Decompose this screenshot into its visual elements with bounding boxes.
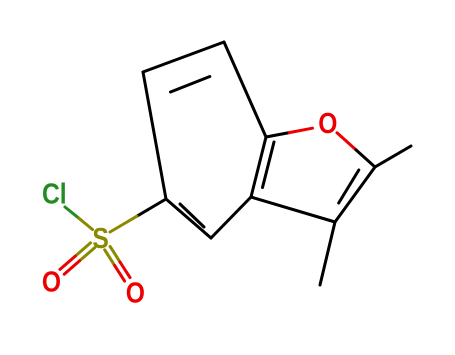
inner line of double bond C6=C7: [171, 77, 210, 93]
bond C7a-O1 black half: [266, 133, 289, 137]
svg-text:O: O: [318, 107, 337, 139]
fusion bond C3a-C7a: [251, 137, 266, 197]
bond C7a-O1 red half: [289, 128, 312, 132]
bond C5-S olive half: [110, 216, 137, 232]
methyl bond C3-CH3: [320, 222, 335, 285]
svg-text:Cl: Cl: [42, 178, 67, 210]
bond S-Cl green half: [65, 207, 79, 218]
benzene bond C6-C5: [143, 72, 166, 199]
inner line of double bond C2=C3: [339, 170, 359, 203]
double bond S=O left: [75, 243, 90, 256]
benzene bond C7-C7a: [224, 42, 266, 137]
svg-text:S: S: [92, 222, 108, 254]
furan bond C3-C3a: [251, 197, 335, 222]
bond S-Cl olive half: [79, 218, 93, 229]
bond C5-S black half: [137, 199, 166, 216]
inner line of double bond C3a=C7a: [263, 142, 275, 188]
benzene bond C5-C4: [166, 199, 211, 238]
double bond S=O right: [105, 250, 115, 266]
svg-text:O: O: [126, 277, 145, 309]
bond O1-C2 black half: [356, 150, 375, 167]
inner line of double bond C4=C5: [180, 204, 204, 227]
svg-text:O: O: [42, 266, 61, 298]
benzene bond C4-C3a: [211, 197, 251, 238]
benzene bond C7-C6: [143, 42, 224, 72]
bond O1-C2 red half: [337, 133, 356, 150]
methyl bond C2-CH3: [375, 146, 411, 167]
furan bond C2-C3: [335, 167, 375, 222]
